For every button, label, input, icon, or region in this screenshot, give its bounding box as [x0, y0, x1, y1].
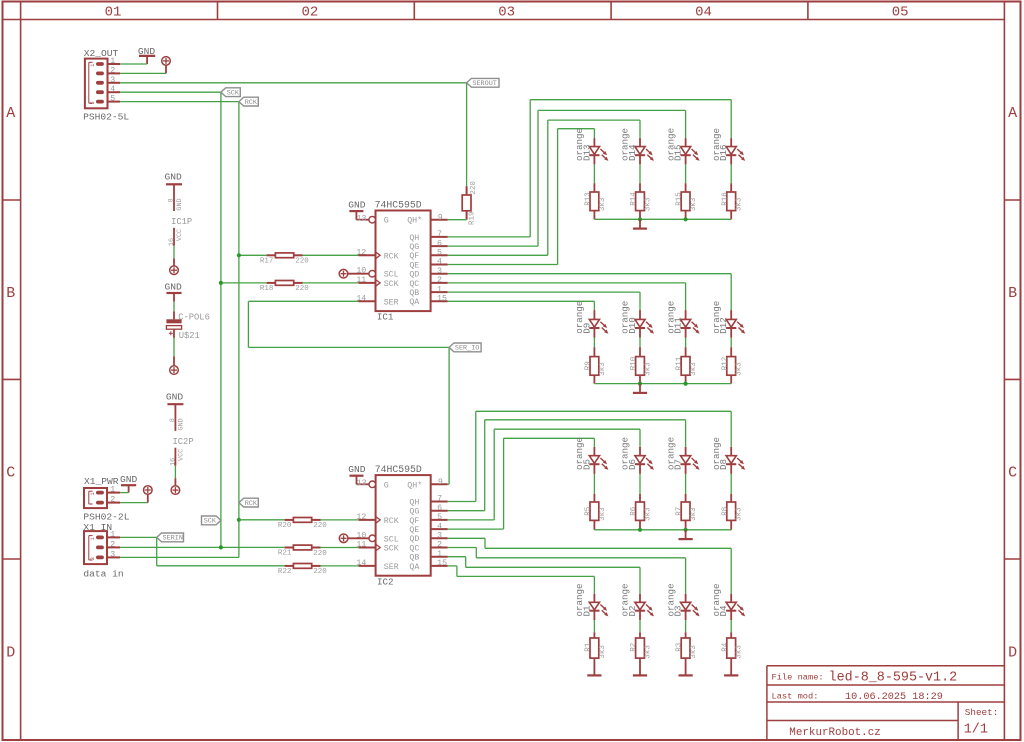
svg-text:D2: D2	[627, 605, 638, 616]
svg-text:3k3: 3k3	[644, 507, 652, 521]
svg-text:C: C	[6, 465, 15, 482]
svg-text:SER_IO: SER_IO	[455, 345, 479, 353]
svg-text:3: 3	[437, 532, 442, 541]
svg-text:04: 04	[695, 4, 712, 20]
svg-text:G: G	[384, 217, 389, 226]
svg-text:RCK: RCK	[245, 500, 258, 508]
svg-text:QE: QE	[409, 526, 419, 535]
svg-text:QH*: QH*	[407, 216, 422, 226]
svg-text:74HC595D: 74HC595D	[375, 464, 422, 475]
svg-text:02: 02	[301, 4, 318, 20]
svg-text:R21: R21	[278, 550, 292, 558]
svg-text:R16: R16	[721, 192, 729, 206]
svg-text:QH: QH	[409, 498, 419, 507]
svg-text:VCC: VCC	[177, 449, 185, 461]
svg-text:3: 3	[437, 267, 442, 276]
svg-text:R11: R11	[676, 356, 684, 370]
svg-text:R7: R7	[676, 507, 684, 516]
svg-text:220: 220	[313, 568, 327, 576]
svg-text:D: D	[6, 644, 15, 661]
svg-text:GND: GND	[165, 171, 183, 182]
svg-text:IC1P: IC1P	[171, 217, 192, 227]
svg-text:QA: QA	[409, 298, 419, 307]
svg-text:R4: R4	[721, 642, 729, 652]
svg-text:8: 8	[169, 418, 177, 422]
svg-text:D3: D3	[673, 605, 684, 616]
svg-text:R6: R6	[630, 506, 638, 516]
svg-text:3: 3	[110, 550, 115, 559]
svg-text:2: 2	[437, 541, 442, 550]
svg-text:05: 05	[892, 4, 909, 20]
svg-text:220: 220	[295, 285, 309, 293]
svg-text:3k3: 3k3	[690, 645, 698, 659]
svg-text:D11: D11	[673, 317, 684, 334]
svg-text:4: 4	[437, 258, 442, 267]
svg-text:B: B	[6, 285, 15, 302]
svg-text:R10: R10	[630, 356, 638, 370]
svg-text:D4: D4	[718, 605, 729, 617]
svg-text:GND: GND	[348, 464, 366, 475]
svg-text:QH*: QH*	[407, 480, 422, 490]
svg-text:3k3: 3k3	[599, 362, 607, 376]
svg-text:PSH02-5L: PSH02-5L	[83, 112, 129, 123]
svg-text:3: 3	[110, 76, 115, 85]
svg-text:R17: R17	[260, 257, 274, 265]
svg-text:3k3: 3k3	[644, 362, 652, 376]
svg-text:QG: QG	[409, 508, 419, 517]
svg-text:4: 4	[437, 522, 442, 531]
svg-text:QD: QD	[409, 535, 419, 544]
svg-text:GND: GND	[166, 391, 184, 402]
svg-text:R14: R14	[630, 192, 638, 206]
svg-text:QD: QD	[409, 271, 419, 280]
svg-text:SCK: SCK	[384, 280, 399, 289]
svg-text:QA: QA	[409, 563, 419, 572]
svg-text:A: A	[6, 105, 15, 122]
svg-text:SCK: SCK	[204, 518, 217, 526]
svg-text:D7: D7	[673, 459, 684, 470]
svg-text:SERIN: SERIN	[163, 535, 183, 543]
svg-text:GND: GND	[176, 198, 184, 210]
svg-text:D15: D15	[673, 144, 684, 161]
svg-text:D16: D16	[718, 144, 729, 161]
svg-text:SCK: SCK	[384, 545, 399, 554]
svg-text:D10: D10	[627, 317, 638, 334]
svg-text:01: 01	[105, 4, 122, 20]
svg-text:GND: GND	[165, 281, 183, 292]
svg-text:SCK: SCK	[227, 90, 240, 98]
svg-text:R12: R12	[721, 357, 729, 371]
svg-text:220: 220	[295, 258, 309, 266]
svg-text:15: 15	[437, 559, 447, 568]
svg-text:Last mod:: Last mod:	[772, 691, 819, 701]
svg-text:3k3: 3k3	[644, 197, 652, 211]
svg-text:R18: R18	[260, 285, 274, 293]
svg-text:RCK: RCK	[384, 252, 399, 261]
svg-text:1: 1	[437, 285, 442, 294]
svg-text:D13: D13	[581, 144, 592, 161]
svg-text:D9: D9	[581, 323, 592, 334]
svg-text:03: 03	[498, 4, 515, 20]
svg-text:1: 1	[437, 550, 442, 559]
svg-text:1: 1	[110, 57, 115, 66]
svg-text:1: 1	[110, 486, 115, 495]
svg-text:3k3: 3k3	[690, 362, 698, 376]
svg-text:QB: QB	[409, 289, 419, 298]
svg-text:RCK: RCK	[384, 517, 399, 526]
svg-text:1: 1	[90, 537, 96, 540]
svg-text:QG: QG	[409, 243, 419, 252]
svg-text:3k3: 3k3	[644, 645, 652, 659]
svg-text:220: 220	[313, 550, 327, 558]
svg-text:R1: R1	[585, 642, 593, 652]
svg-text:3k3: 3k3	[599, 197, 607, 211]
svg-text:1: 1	[90, 64, 96, 67]
svg-text:7: 7	[437, 495, 442, 504]
svg-text:3k3: 3k3	[690, 507, 698, 521]
svg-text:1: 1	[90, 492, 96, 495]
svg-text:SEROUT: SEROUT	[472, 80, 496, 88]
svg-text:B: B	[1008, 285, 1017, 302]
svg-text:5: 5	[437, 249, 442, 258]
svg-text:D8: D8	[718, 459, 729, 470]
svg-text:2: 2	[110, 66, 115, 75]
svg-text:GND: GND	[348, 200, 366, 211]
svg-text:3k3: 3k3	[736, 362, 744, 376]
svg-text:3k3: 3k3	[599, 645, 607, 659]
svg-text:R8: R8	[721, 507, 729, 516]
svg-text:GND: GND	[120, 474, 138, 485]
svg-text:MerkurRobot.cz: MerkurRobot.cz	[789, 727, 881, 739]
svg-text:IC2: IC2	[377, 576, 394, 587]
svg-text:2: 2	[110, 540, 115, 549]
svg-text:5: 5	[90, 101, 96, 104]
svg-text:D6: D6	[627, 459, 638, 470]
svg-text:R13: R13	[585, 192, 593, 206]
svg-text:R22: R22	[278, 568, 292, 576]
svg-text:5: 5	[437, 513, 442, 522]
svg-text:3k3: 3k3	[690, 197, 698, 211]
svg-text:1: 1	[110, 530, 115, 539]
svg-text:220: 220	[470, 181, 478, 195]
svg-text:9: 9	[438, 213, 443, 222]
svg-text:D12: D12	[718, 317, 729, 334]
svg-text:2: 2	[437, 276, 442, 285]
svg-text:IC2P: IC2P	[173, 437, 194, 447]
svg-text:1/1: 1/1	[964, 723, 988, 738]
svg-text:13: 13	[357, 479, 367, 488]
svg-text:A: A	[1008, 105, 1017, 122]
svg-text:R5: R5	[585, 506, 593, 516]
svg-text:Sheet:: Sheet:	[965, 707, 998, 718]
svg-text:File name:: File name:	[772, 672, 824, 682]
svg-text:D5: D5	[581, 459, 592, 470]
svg-text:QH: QH	[409, 234, 419, 243]
svg-text:R15: R15	[676, 192, 684, 206]
svg-text:G: G	[384, 481, 389, 490]
svg-text:D14: D14	[627, 144, 638, 161]
svg-text:4: 4	[110, 85, 115, 94]
svg-text:data in: data in	[83, 568, 123, 579]
svg-text:3k3: 3k3	[736, 645, 744, 659]
svg-text:GND: GND	[177, 418, 185, 430]
svg-text:R19: R19	[468, 211, 476, 225]
svg-text:SER: SER	[384, 563, 399, 572]
svg-text:VCC: VCC	[176, 229, 184, 241]
svg-text:R2: R2	[630, 643, 638, 652]
svg-text:U$21: U$21	[179, 331, 200, 341]
svg-text:QE: QE	[409, 261, 419, 270]
svg-text:3k3: 3k3	[599, 507, 607, 521]
svg-text:6: 6	[437, 239, 442, 248]
svg-text:D1: D1	[581, 605, 592, 617]
svg-text:SCL: SCL	[384, 535, 399, 544]
svg-text:5: 5	[110, 95, 115, 104]
svg-text:74HC595D: 74HC595D	[375, 200, 422, 211]
svg-text:QF: QF	[409, 517, 419, 526]
svg-text:QF: QF	[409, 252, 419, 261]
svg-text:RCK: RCK	[245, 99, 258, 107]
svg-text:D: D	[1008, 644, 1017, 661]
svg-text:QC: QC	[409, 280, 419, 289]
svg-text:6: 6	[437, 504, 442, 513]
svg-text:3: 3	[90, 557, 96, 560]
svg-text:2: 2	[110, 496, 115, 505]
svg-text:220: 220	[313, 522, 327, 530]
svg-text:R9: R9	[585, 361, 593, 370]
svg-text:IC1: IC1	[377, 312, 394, 323]
svg-text:PSH02-2L: PSH02-2L	[83, 511, 129, 522]
svg-text:R3: R3	[676, 642, 684, 652]
svg-text:C-POL6: C-POL6	[178, 313, 210, 323]
svg-text:7: 7	[437, 230, 442, 239]
svg-text:C: C	[1008, 465, 1017, 482]
svg-text:8: 8	[167, 198, 175, 202]
svg-text:3k3: 3k3	[736, 507, 744, 521]
svg-text:R20: R20	[278, 522, 292, 530]
svg-text:SCL: SCL	[384, 271, 399, 280]
svg-text:3k3: 3k3	[736, 197, 744, 211]
svg-text:led-8_8-595-v1.2: led-8_8-595-v1.2	[829, 671, 958, 686]
svg-text:SER: SER	[384, 298, 399, 307]
svg-text:QC: QC	[409, 544, 419, 553]
svg-text:15: 15	[437, 295, 447, 304]
svg-text:QB: QB	[409, 554, 419, 563]
svg-text:13: 13	[357, 215, 367, 224]
svg-text:9: 9	[438, 478, 443, 487]
svg-text:10.06.2025 18:29: 10.06.2025 18:29	[845, 692, 943, 703]
